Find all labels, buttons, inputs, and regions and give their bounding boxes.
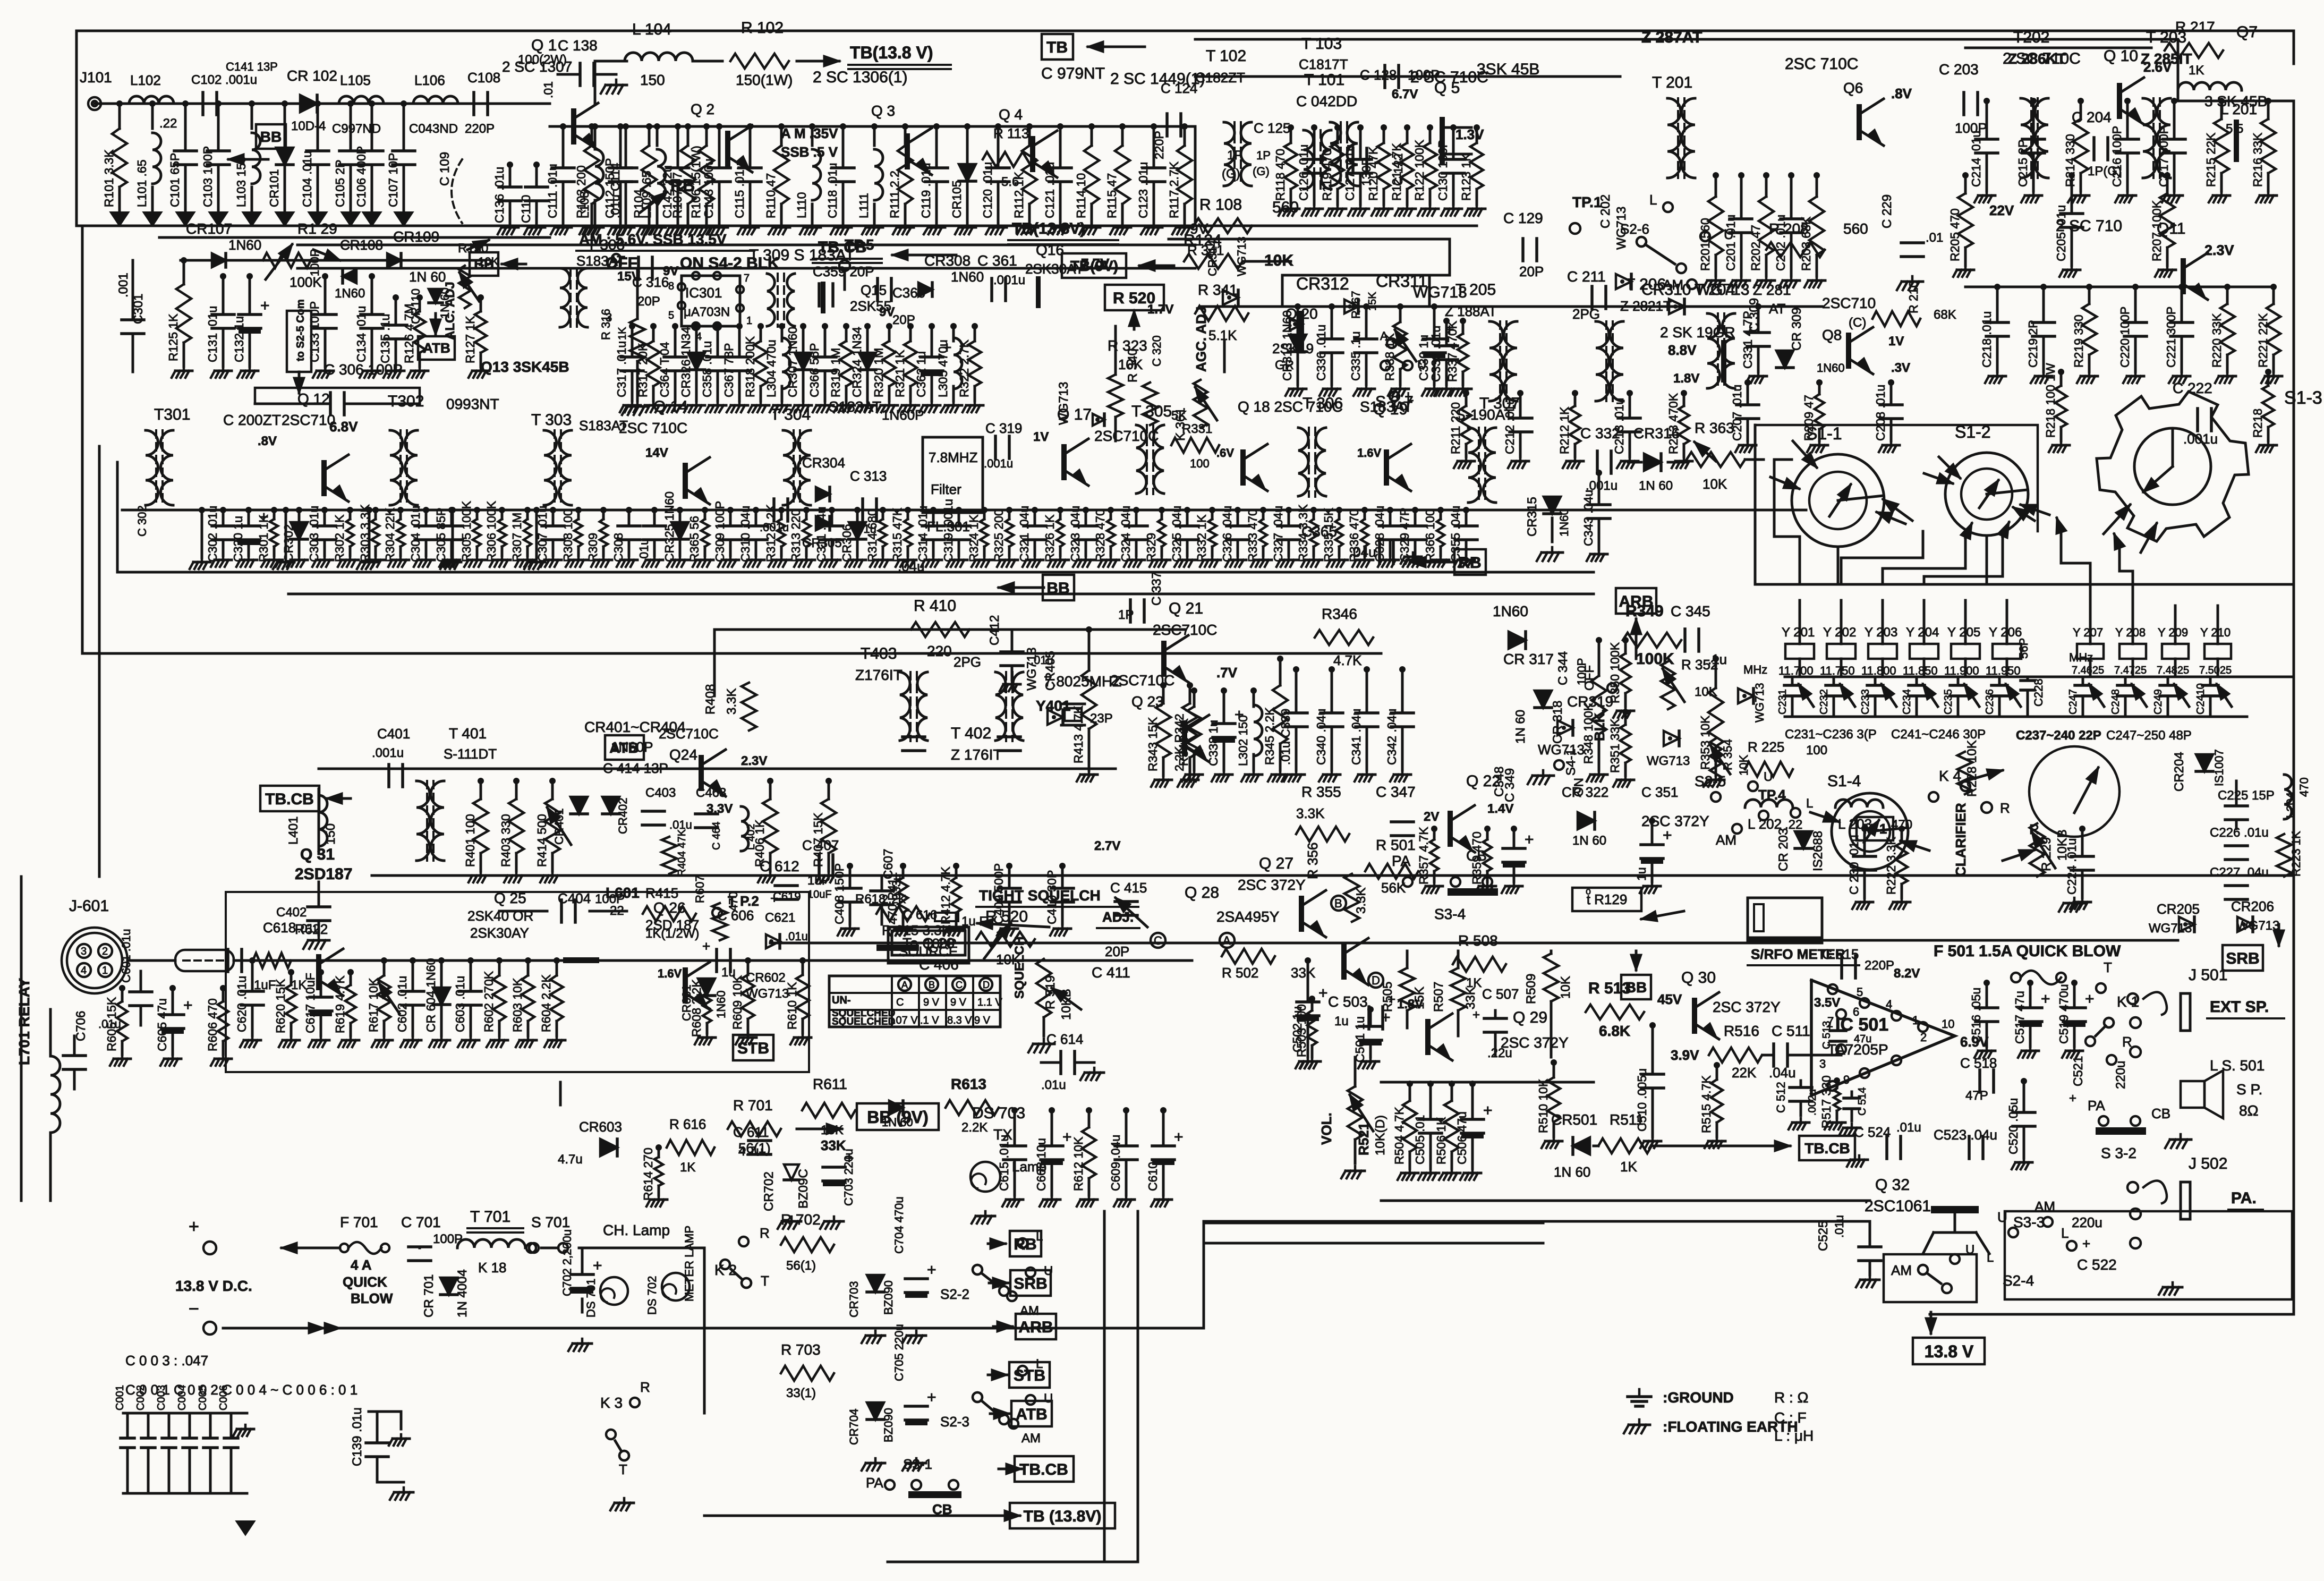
svg-text:C 411: C 411: [1092, 964, 1130, 981]
svg-text:CR310 WG713: CR310 WG713: [1641, 281, 1749, 299]
svg-text:2SC 710C: 2SC 710C: [1785, 55, 1858, 73]
svg-text:T: T: [619, 1461, 627, 1477]
svg-text:R308 100: R308 100: [561, 509, 575, 562]
svg-text:R304 22K: R304 22K: [383, 507, 397, 562]
svg-text:100(2W): 100(2W): [518, 53, 567, 67]
svg-text:TP.5: TP.5: [845, 236, 874, 253]
svg-text:1K: 1K: [2189, 63, 2204, 78]
svg-text:to S2-5 Com: to S2-5 Com: [295, 299, 307, 361]
svg-text:A: A: [1380, 329, 1388, 343]
svg-text:CR325 1N60: CR325 1N60: [662, 491, 676, 562]
svg-text:T 308: T 308: [587, 236, 625, 253]
svg-text:150: 150: [324, 823, 338, 845]
svg-text:5.1K: 5.1K: [1208, 327, 1237, 343]
svg-text:.01u: .01u: [854, 522, 876, 535]
svg-text:L S. 501: L S. 501: [2210, 1057, 2265, 1074]
svg-text:C342 .04u: C342 .04u: [1385, 709, 1399, 765]
svg-text:R320 1M: R320 1M: [872, 348, 886, 397]
svg-text:AM: AM: [1021, 1431, 1041, 1446]
svg-text:C501 1u: C501 1u: [1353, 1016, 1367, 1062]
svg-text:2SC710: 2SC710: [282, 412, 335, 428]
svg-text:C141 13P: C141 13P: [226, 60, 278, 73]
svg-text:+: +: [1472, 1008, 1480, 1022]
svg-text:S3-4: S3-4: [1434, 906, 1466, 922]
svg-text:100: 100: [1190, 457, 1210, 470]
svg-text:R 341: R 341: [1187, 242, 1224, 258]
svg-text:R: R: [2000, 800, 2010, 816]
svg-text:.8V: .8V: [258, 434, 277, 448]
svg-text:R612 10K: R612 10K: [1071, 1136, 1085, 1191]
svg-text:Q7: Q7: [2236, 23, 2258, 41]
svg-text:.001u: .001u: [760, 521, 789, 534]
svg-text:3.5V: 3.5V: [1814, 996, 1840, 1010]
svg-text:IC301: IC301: [685, 285, 722, 301]
svg-text:C 511: C 511: [1772, 1023, 1810, 1039]
svg-text:TP.1: TP.1: [1572, 194, 1602, 210]
svg-text:T: T: [2104, 959, 2112, 975]
svg-text:R1 29: R1 29: [297, 220, 337, 237]
svg-text:.01: .01: [1926, 231, 1943, 245]
svg-text:1.6V: 1.6V: [1357, 446, 1382, 460]
svg-text:CR319: CR319: [1567, 693, 1613, 710]
svg-text:A M .35V: A M .35V: [781, 125, 838, 141]
svg-text:CB: CB: [2151, 1106, 2170, 1121]
svg-text:C 128: C 128: [1360, 67, 1397, 83]
svg-text:C402: C402: [276, 905, 307, 920]
svg-text:BB: BB: [1046, 580, 1069, 597]
svg-text:J 501: J 501: [2189, 966, 2227, 984]
svg-text:Q 23: Q 23: [1131, 693, 1164, 710]
svg-text:L304 470u: L304 470u: [764, 339, 778, 397]
svg-text:TB (13.8V): TB (13.8V): [1024, 1508, 1102, 1525]
svg-text:L 201: L 201: [2220, 101, 2257, 117]
svg-text:C702 2,200u: C702 2,200u: [560, 1229, 574, 1296]
svg-text:R333 470: R333 470: [1246, 509, 1259, 562]
svg-text:1.4V: 1.4V: [1487, 802, 1513, 816]
svg-text:D: D: [983, 980, 990, 990]
svg-text:Q 21: Q 21: [1169, 600, 1203, 617]
svg-text:QUICK: QUICK: [343, 1274, 387, 1290]
svg-text:C: C: [896, 997, 904, 1008]
svg-text:2SA495Y: 2SA495Y: [1216, 908, 1280, 925]
svg-text:11.850: 11.850: [1903, 664, 1938, 677]
svg-text:220: 220: [927, 643, 952, 659]
svg-text:R 363: R 363: [1695, 420, 1734, 436]
svg-text:C 202: C 202: [1598, 194, 1613, 228]
svg-text:C 464: C 464: [711, 822, 722, 850]
svg-text:C617 10uF: C617 10uF: [303, 973, 317, 1033]
svg-text:STB: STB: [737, 1040, 769, 1057]
svg-text:3.3K: 3.3K: [725, 688, 739, 715]
svg-text:TX: TX: [993, 1126, 1012, 1143]
svg-text:C305 85P: C305 85P: [434, 508, 448, 562]
svg-text:5: 5: [668, 310, 674, 321]
svg-text:C336 .01u: C336 .01u: [1314, 325, 1328, 381]
svg-text:J 502: J 502: [2189, 1155, 2227, 1172]
svg-text:T 101: T 101: [1304, 71, 1344, 89]
svg-text:R322 2.7K: R322 2.7K: [957, 339, 971, 397]
svg-text:C 313: C 313: [850, 468, 887, 484]
svg-text:.01u: .01u: [1833, 1215, 1846, 1238]
svg-text:6.8V: 6.8V: [329, 419, 358, 435]
svg-text:R 501: R 501: [1376, 837, 1416, 853]
svg-text:.01u: .01u: [1896, 1120, 1921, 1135]
svg-text:3: 3: [81, 946, 87, 957]
svg-text:2SC 710C: 2SC 710C: [619, 420, 687, 436]
svg-text:R 355: R 355: [1301, 784, 1341, 800]
svg-text:SSB .5 V: SSB .5 V: [781, 144, 838, 160]
svg-text:ATB: ATB: [609, 739, 639, 756]
svg-text:CR 701: CR 701: [422, 1274, 436, 1317]
svg-text:R202 47: R202 47: [1749, 225, 1763, 271]
svg-text:2.2K: 2.2K: [961, 1120, 988, 1135]
svg-text:C412: C412: [988, 615, 1002, 645]
svg-text:C133 100P: C133 100P: [308, 301, 321, 362]
svg-text:2PG: 2PG: [954, 654, 981, 670]
svg-text:L111: L111: [857, 193, 871, 218]
svg-text:3.3V: 3.3V: [706, 802, 733, 816]
svg-text:R337 470K: R337 470K: [1445, 320, 1459, 382]
svg-text:Y 209: Y 209: [2158, 626, 2188, 639]
svg-text:L102: L102: [130, 72, 161, 88]
svg-text:BB: BB: [260, 129, 282, 145]
svg-text:R220 33K: R220 33K: [2210, 313, 2224, 368]
svg-text:C231~C236 3(P: C231~C236 3(P: [1785, 727, 1877, 742]
svg-text:+: +: [2069, 1091, 2076, 1106]
svg-text:C 109: C 109: [438, 152, 452, 186]
svg-text:S2-5: S2-5: [1695, 773, 1726, 789]
svg-text:+: +: [1318, 984, 1328, 1002]
svg-text:C340 .04u: C340 .04u: [1314, 709, 1328, 765]
svg-text:1N60: 1N60: [714, 990, 728, 1018]
svg-text:R622: R622: [295, 921, 328, 937]
svg-text:R404 47K: R404 47K: [676, 829, 688, 877]
svg-text:2SC710C: 2SC710C: [659, 726, 719, 742]
svg-text:33K: 33K: [1291, 965, 1316, 981]
svg-text:CR108: CR108: [340, 237, 383, 253]
svg-text:.22: .22: [159, 116, 177, 131]
svg-text:9: 9: [1843, 1073, 1850, 1086]
svg-text:7.4625: 7.4625: [2072, 665, 2104, 676]
svg-text:Q 26: Q 26: [653, 899, 686, 916]
svg-text:C134 .01u: C134 .01u: [354, 306, 368, 362]
svg-text:C 124: C 124: [1161, 80, 1197, 96]
svg-text:ATB: ATB: [1016, 1406, 1047, 1423]
svg-text:L110: L110: [795, 192, 808, 218]
svg-text:C208 .01u: C208 .01u: [1874, 385, 1887, 441]
svg-text:2SK30AY: 2SK30AY: [470, 925, 529, 941]
svg-text:RB: RB: [670, 176, 695, 195]
svg-text:C605 47u: C605 47u: [155, 998, 169, 1051]
svg-text:11.900: 11.900: [1944, 664, 1979, 677]
svg-text:R: R: [2122, 1034, 2132, 1050]
svg-text:tͦ R129: tͦ R129: [1586, 889, 1627, 907]
svg-text:Y 201: Y 201: [1782, 625, 1815, 640]
svg-text:Q15: Q15: [861, 282, 887, 298]
svg-text:R 356: R 356: [1305, 843, 1321, 879]
svg-text:C 415: C 415: [1110, 880, 1147, 896]
svg-text:R414 500: R414 500: [535, 814, 549, 867]
svg-text:S1-1: S1-1: [1806, 424, 1842, 443]
svg-text:470: 470: [1891, 818, 1912, 832]
svg-text:C003: C003: [156, 1385, 167, 1410]
svg-text:8.2V: 8.2V: [1894, 966, 1920, 981]
svg-text:S2-2: S2-2: [940, 1286, 969, 1302]
svg-text:Q 29: Q 29: [1513, 1009, 1547, 1026]
svg-text:.01u C339: .01u C339: [1279, 709, 1292, 765]
svg-text:C362 1u: C362 1u: [914, 351, 928, 397]
svg-text:R611: R611: [813, 1076, 847, 1092]
svg-text:20P: 20P: [1105, 943, 1129, 959]
svg-text:.002u: .002u: [1807, 1089, 1818, 1116]
svg-text:C 042DD: C 042DD: [1296, 93, 1357, 109]
svg-text:2SC710C: 2SC710C: [1094, 428, 1159, 444]
svg-text:R117 2.7K: R117 2.7K: [1167, 161, 1181, 218]
svg-text:R321 1K: R321 1K: [893, 350, 907, 397]
svg-text:4.7u: 4.7u: [558, 1152, 583, 1167]
svg-text:DS 702: DS 702: [645, 1276, 659, 1315]
svg-text:C115 .01u: C115 .01u: [733, 163, 746, 218]
svg-text:C310 .04u: C310 .04u: [738, 506, 752, 562]
svg-text:T 102: T 102: [1206, 47, 1246, 65]
svg-text:C237~240 22P: C237~240 22P: [2016, 728, 2101, 743]
svg-text:C327 .04u: C327 .04u: [1271, 506, 1285, 562]
svg-text:C 503: C 503: [1328, 993, 1368, 1010]
svg-text:1K: 1K: [680, 1160, 695, 1175]
svg-text:BB (9V): BB (9V): [867, 1108, 929, 1127]
svg-text:C324 .04u: C324 .04u: [1119, 506, 1133, 562]
svg-text:.7V: .7V: [1216, 665, 1238, 681]
svg-text:CR313 1N60: CR313 1N60: [1280, 310, 1294, 381]
svg-text:BZ090: BZ090: [882, 1408, 895, 1442]
svg-text:C 606: C 606: [717, 907, 754, 923]
svg-text:R331: R331: [1182, 422, 1212, 436]
svg-text:C217 300P: C217 300P: [2157, 126, 2170, 187]
svg-text:R315 47K: R315 47K: [890, 507, 904, 562]
svg-text:STB: STB: [1014, 1367, 1045, 1384]
svg-text:C517 47u: C517 47u: [2013, 991, 2027, 1044]
svg-text:C348: C348: [1492, 767, 1506, 797]
svg-text:C365: C365: [1301, 523, 1337, 540]
svg-text:C311 .04u: C311 .04u: [814, 507, 828, 562]
svg-text:C130 100P: C130 100P: [1436, 140, 1450, 201]
svg-text:.01: .01: [541, 81, 555, 98]
svg-text:+: +: [260, 297, 270, 314]
svg-text:−: −: [189, 1299, 199, 1319]
svg-text:CR204: CR204: [2172, 752, 2186, 792]
svg-text:C224 .01u: C224 .01u: [2065, 838, 2079, 895]
svg-text:L701 RELAY: L701 RELAY: [16, 978, 32, 1065]
svg-text:C214 .01u: C214 .01u: [1969, 131, 1983, 187]
svg-text:TB: TB: [1046, 39, 1068, 56]
svg-text:T202: T202: [2013, 29, 2049, 46]
svg-text:.01u: .01u: [637, 538, 651, 562]
svg-text:C103 100P: C103 100P: [201, 146, 215, 207]
svg-text:.22u: .22u: [1487, 1046, 1512, 1060]
svg-text:C 302: C 302: [135, 505, 149, 537]
svg-text:C 524: C 524: [1854, 1124, 1891, 1140]
svg-text:C 512: C 512: [1774, 1082, 1787, 1113]
svg-text:C234: C234: [1901, 689, 1913, 715]
svg-text:9 V: 9 V: [950, 997, 967, 1008]
svg-text:9 V: 9 V: [974, 1015, 991, 1026]
svg-text:220u: 220u: [2114, 1061, 2128, 1089]
svg-text:CR206: CR206: [2231, 898, 2274, 914]
svg-text:R213 470K: R213 470K: [1666, 393, 1680, 454]
svg-text:C 514: C 514: [1857, 1087, 1868, 1116]
svg-text:Q 30: Q 30: [1681, 969, 1716, 987]
svg-text:WG713: WG713: [1235, 236, 1248, 276]
svg-text:F 501 1.5A QUICK BLOW: F 501 1.5A QUICK BLOW: [1934, 942, 2121, 960]
svg-text:R319 1M: R319 1M: [829, 348, 842, 397]
svg-text:C 211: C 211: [1567, 268, 1606, 285]
svg-text:15V: 15V: [617, 269, 640, 284]
svg-text:R115 47: R115 47: [1105, 173, 1119, 218]
svg-text:Y 202: Y 202: [1823, 625, 1856, 640]
svg-text:RB: RB: [1014, 1236, 1036, 1253]
svg-text:1K: 1K: [617, 327, 628, 340]
svg-text:Y 204: Y 204: [1906, 625, 1939, 640]
svg-text:R119 470: R119 470: [1320, 149, 1334, 201]
svg-text:L101 .65: L101 .65: [135, 159, 149, 207]
svg-text:CR 604 1N60: CR 604 1N60: [424, 958, 438, 1032]
svg-text:R 210: R 210: [1906, 281, 1920, 313]
svg-text:R614 270: R614 270: [641, 1147, 655, 1201]
svg-text:4 A: 4 A: [351, 1257, 372, 1273]
svg-text:Q16: Q16: [1036, 242, 1064, 258]
svg-text:10D-4: 10D-4: [291, 119, 326, 133]
svg-text:R 208: R 208: [1769, 220, 1809, 237]
svg-text:C 129: C 129: [1503, 210, 1543, 226]
svg-text:10K(D): 10K(D): [1373, 1115, 1387, 1155]
svg-text:9 V: 9 V: [923, 997, 940, 1008]
svg-text:2SD 187: 2SD 187: [645, 917, 699, 933]
svg-text:C110: C110: [519, 195, 533, 223]
svg-text:C308: C308: [611, 533, 625, 562]
svg-text:ALC. ADJ: ALC. ADJ: [443, 282, 457, 340]
svg-text:CR205: CR205: [2157, 901, 2200, 917]
svg-text:BZ090: BZ090: [882, 1280, 895, 1315]
svg-text:1N60: 1N60: [228, 237, 261, 253]
svg-text:8: 8: [668, 280, 674, 292]
svg-text:2V: 2V: [1424, 810, 1439, 824]
svg-text:8Ω: 8Ω: [2239, 1102, 2259, 1119]
svg-text:220P: 220P: [465, 122, 495, 136]
svg-text:C 345: C 345: [1671, 603, 1710, 619]
svg-text:C228: C228: [2032, 678, 2045, 707]
svg-text:56P: 56P: [2017, 638, 2030, 659]
svg-text:1N 60: 1N 60: [1513, 710, 1528, 744]
svg-text:C235: C235: [1943, 689, 1954, 715]
svg-text:+: +: [2085, 990, 2095, 1008]
svg-text:3: 3: [1819, 1057, 1826, 1070]
svg-text:PA: PA: [1392, 853, 1411, 869]
svg-text:.033u: .033u: [890, 874, 903, 903]
svg-text:1.6V: 1.6V: [658, 967, 682, 980]
svg-text:C215 2P: C215 2P: [2016, 139, 2030, 187]
svg-text:ADJ.: ADJ.: [1102, 909, 1134, 925]
svg-text:C516 .05u: C516 .05u: [1969, 988, 1983, 1044]
svg-text:Q6: Q6: [1843, 80, 1863, 96]
svg-text:CR315: CR315: [1525, 497, 1539, 537]
svg-text:C 614: C 614: [1046, 1031, 1083, 1047]
svg-text:R325 200: R325 200: [992, 509, 1006, 562]
svg-text:C 361: C 361: [977, 252, 1017, 269]
svg-text:C221 300P: C221 300P: [2164, 307, 2178, 368]
svg-text:ATB: ATB: [423, 340, 450, 356]
svg-text:C143 100u: C143 100u: [702, 158, 716, 218]
svg-text:7.8MHZ: 7.8MHZ: [929, 449, 978, 465]
svg-text:2 SK 19GR: 2 SK 19GR: [1660, 324, 1735, 341]
svg-text:C 0 0 3 : .047: C 0 0 3 : .047: [125, 1353, 208, 1368]
svg-text:U: U: [1965, 1243, 1974, 1257]
svg-text:C232: C232: [1818, 689, 1830, 715]
svg-text:R 520: R 520: [1113, 290, 1155, 307]
svg-text:ARB: ARB: [1619, 593, 1654, 610]
svg-text:R 217: R 217: [2175, 19, 2215, 35]
svg-text:CR305: CR305: [802, 536, 842, 550]
svg-text:560: 560: [1272, 199, 1299, 216]
svg-text:2SC710: 2SC710: [1822, 295, 1876, 311]
svg-text:8.8V: 8.8V: [1668, 342, 1697, 358]
svg-text:R510 10K: R510 10K: [1536, 1078, 1550, 1133]
svg-text:R 508: R 508: [1458, 932, 1498, 949]
svg-text:+: +: [702, 938, 710, 954]
svg-text:C309 100P: C309 100P: [713, 501, 727, 562]
svg-text:C 407: C 407: [802, 837, 839, 853]
svg-text:MHz: MHz: [1743, 663, 1767, 676]
svg-text:C609 .04u: C609 .04u: [1109, 1135, 1122, 1191]
svg-text::GROUND: :GROUND: [1663, 1389, 1734, 1406]
svg-text:C136 .01u: C136 .01u: [492, 167, 506, 223]
svg-text:R306 100K: R306 100K: [484, 500, 498, 562]
svg-text:T 309 S 183AT: T 309 S 183AT: [749, 246, 855, 264]
svg-text:R345 2.2K: R345 2.2K: [1263, 707, 1276, 765]
svg-text:R : Ω: R : Ω: [1774, 1389, 1809, 1406]
svg-text:L 104: L 104: [632, 21, 671, 38]
svg-text:R313 220: R313 220: [789, 509, 803, 562]
svg-text:1K: 1K: [1466, 976, 1482, 990]
svg-text:.22: .22: [1785, 818, 1802, 832]
svg-text:C247~250 48P: C247~250 48P: [2106, 728, 2192, 743]
svg-text:C519 470u: C519 470u: [2057, 984, 2071, 1044]
svg-text:BZ09C: BZ09C: [796, 1169, 811, 1209]
svg-text:C307 .01u: C307 .01u: [535, 506, 549, 562]
svg-text:C120 .01u: C120 .01u: [981, 162, 994, 218]
svg-text:R332 1K: R332 1K: [1195, 514, 1208, 562]
svg-text:C603 .01u: C603 .01u: [453, 976, 467, 1032]
svg-text:L: L: [1649, 192, 1657, 208]
svg-text:C118 .01u: C118 .01u: [825, 163, 839, 218]
svg-text:R521: R521: [1356, 1123, 1372, 1155]
svg-text:CR402: CR402: [616, 798, 629, 834]
svg-text:R517 330: R517 330: [1819, 1075, 1833, 1128]
svg-text:U: U: [1724, 226, 1734, 242]
svg-text:R 703: R 703: [781, 1341, 821, 1358]
svg-text:R307 1M: R307 1M: [510, 513, 524, 562]
svg-text:C111 .01u: C111 .01u: [546, 164, 559, 218]
svg-text:R125 1K: R125 1K: [166, 313, 180, 361]
svg-text:TIGHT SQUELCH: TIGHT SQUELCH: [979, 887, 1101, 904]
svg-text:S2-3: S2-3: [940, 1414, 969, 1430]
svg-text:R110 47: R110 47: [764, 173, 778, 218]
svg-text:CR307 1N60: CR307 1N60: [786, 327, 799, 397]
svg-text:R216 33K: R216 33K: [2251, 132, 2265, 187]
svg-text:1N60: 1N60: [1493, 603, 1528, 619]
svg-text:C108: C108: [467, 70, 500, 86]
svg-text:C705 220u: C705 220u: [892, 1324, 906, 1381]
svg-text:+: +: [2082, 1236, 2090, 1252]
